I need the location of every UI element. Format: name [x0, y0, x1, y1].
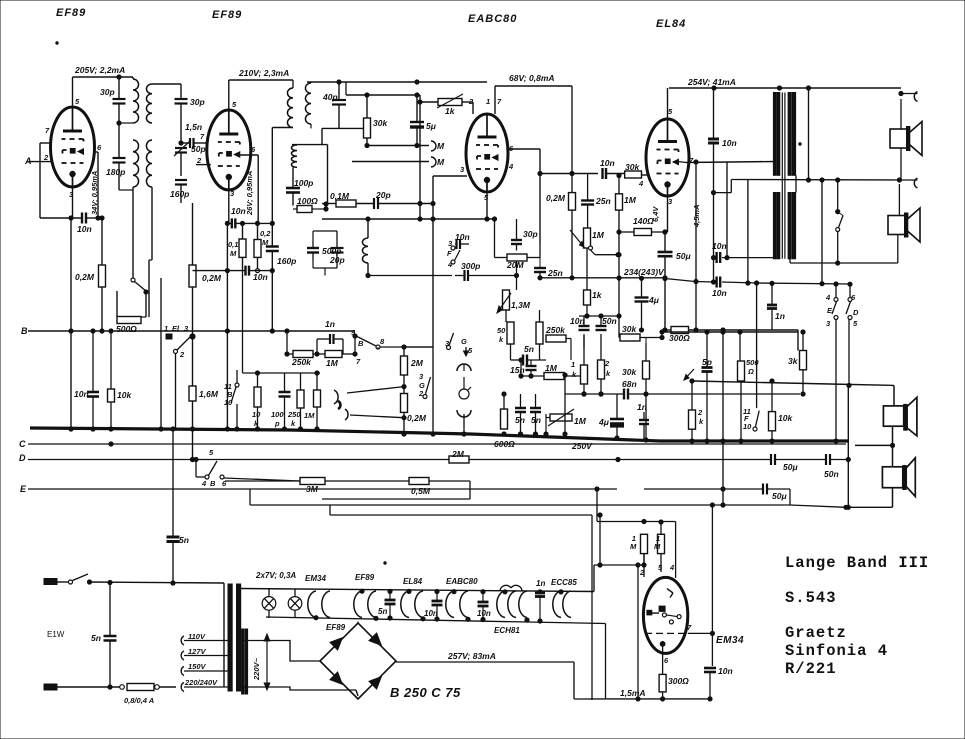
svg-text:E1W: E1W: [47, 630, 65, 639]
svg-text:10n: 10n: [722, 138, 737, 148]
svg-text:0,5M: 0,5M: [411, 486, 431, 496]
svg-text:ECH81: ECH81: [494, 626, 520, 635]
svg-text:5n: 5n: [515, 415, 525, 425]
svg-text:50: 50: [497, 326, 506, 335]
svg-text:234(243)V: 234(243)V: [623, 267, 665, 277]
svg-text:500Ω: 500Ω: [116, 324, 137, 334]
svg-text:1M: 1M: [624, 195, 637, 205]
svg-text:2: 2: [604, 359, 610, 368]
svg-text:50n: 50n: [824, 469, 839, 479]
svg-text:5n: 5n: [179, 535, 189, 545]
svg-text:30p: 30p: [100, 87, 115, 97]
svg-text:4: 4: [508, 162, 514, 171]
svg-text:6,4V: 6,4V: [651, 206, 660, 222]
svg-text:0,1: 0,1: [228, 240, 238, 249]
svg-text:5n: 5n: [524, 344, 534, 354]
svg-text:10n: 10n: [455, 232, 470, 242]
svg-text:Graetz: Graetz: [785, 624, 847, 642]
svg-text:10n: 10n: [231, 206, 246, 216]
svg-text:ECC85: ECC85: [551, 578, 577, 587]
svg-text:Sinfonia 4: Sinfonia 4: [785, 642, 888, 660]
svg-text:250: 250: [287, 410, 301, 419]
svg-text:S.543: S.543: [785, 589, 837, 607]
svg-text:1n: 1n: [536, 579, 545, 588]
svg-text:2M: 2M: [451, 449, 465, 459]
svg-text:4: 4: [825, 293, 831, 302]
svg-text:F: F: [447, 249, 452, 258]
svg-text:30k: 30k: [622, 324, 637, 334]
svg-text:3k: 3k: [788, 356, 799, 366]
svg-text:10n: 10n: [600, 158, 615, 168]
svg-text:1M: 1M: [545, 363, 558, 373]
svg-text:EABC80: EABC80: [446, 577, 478, 586]
svg-text:2: 2: [697, 408, 703, 417]
svg-text:1M: 1M: [326, 358, 339, 368]
svg-text:10k: 10k: [117, 390, 132, 400]
svg-text:30k: 30k: [622, 367, 637, 377]
svg-text:EL84: EL84: [403, 577, 423, 586]
svg-text:30p: 30p: [523, 229, 538, 239]
svg-text:1,5n: 1,5n: [185, 122, 202, 132]
svg-text:4: 4: [201, 479, 207, 488]
svg-text:10: 10: [252, 410, 261, 419]
svg-text:1n: 1n: [775, 311, 785, 321]
svg-text:10n: 10n: [253, 272, 268, 282]
svg-text:5n: 5n: [531, 415, 541, 425]
svg-text:p: p: [274, 419, 280, 428]
svg-text:50p: 50p: [191, 144, 206, 154]
svg-text:68n: 68n: [622, 379, 637, 389]
svg-text:10n: 10n: [424, 609, 438, 618]
svg-text:220/240V: 220/240V: [184, 678, 218, 687]
svg-text:M: M: [437, 141, 445, 151]
svg-text:0,2: 0,2: [260, 229, 271, 238]
svg-text:1k: 1k: [592, 290, 603, 300]
svg-text:300p: 300p: [461, 261, 480, 271]
svg-text:20p: 20p: [375, 190, 391, 200]
svg-text:30p: 30p: [190, 97, 205, 107]
svg-text:1k: 1k: [445, 106, 456, 116]
svg-text:10n: 10n: [712, 288, 727, 298]
svg-text:0,8/0,4 A: 0,8/0,4 A: [124, 696, 154, 705]
svg-text:250V: 250V: [571, 441, 593, 451]
svg-text:26V; 0,95mA: 26V; 0,95mA: [245, 171, 254, 216]
svg-text:EABC80: EABC80: [468, 13, 517, 25]
svg-text:1,6M: 1,6M: [199, 389, 219, 399]
svg-text:10: 10: [743, 422, 752, 431]
svg-text:4μ: 4μ: [598, 417, 610, 427]
svg-text:0,2M: 0,2M: [407, 413, 427, 423]
svg-text:EF89: EF89: [326, 623, 346, 632]
svg-text:1M: 1M: [574, 416, 587, 426]
svg-text:1M: 1M: [304, 411, 315, 420]
svg-text:34V; 0,95mA: 34V; 0,95mA: [90, 171, 99, 215]
svg-text:M: M: [630, 542, 637, 551]
svg-text:220V~: 220V~: [252, 657, 261, 681]
svg-text:205V; 2,2mA: 205V; 2,2mA: [74, 65, 125, 75]
svg-text:0,1M: 0,1M: [330, 191, 350, 201]
svg-text:10k: 10k: [778, 413, 793, 423]
svg-text:EL84: EL84: [656, 18, 686, 30]
svg-text:10n: 10n: [718, 666, 733, 676]
svg-text:2: 2: [179, 350, 185, 359]
svg-text:1n: 1n: [325, 319, 335, 329]
svg-text:4: 4: [669, 563, 675, 572]
svg-text:5μ: 5μ: [426, 121, 437, 131]
svg-text:110V: 110V: [188, 632, 206, 641]
svg-text:G: G: [461, 337, 467, 346]
svg-text:10n: 10n: [477, 609, 491, 618]
svg-text:300Ω: 300Ω: [668, 676, 689, 686]
svg-text:254V; 41mA: 254V; 41mA: [687, 77, 736, 87]
svg-text:1: 1: [486, 97, 490, 106]
svg-text:50n: 50n: [602, 316, 617, 326]
svg-text:210V; 2,3mA: 210V; 2,3mA: [238, 68, 289, 78]
svg-text:1,5mA: 1,5mA: [620, 688, 646, 698]
svg-text:0,2M: 0,2M: [75, 272, 95, 282]
svg-text:El: El: [172, 324, 180, 333]
svg-text:B: B: [21, 326, 28, 336]
svg-text:10n: 10n: [712, 241, 727, 251]
svg-text:20p: 20p: [329, 255, 345, 265]
svg-text:D: D: [853, 308, 859, 317]
svg-text:50μ: 50μ: [772, 491, 787, 501]
svg-text:50μ: 50μ: [676, 251, 691, 261]
svg-text:250k: 250k: [545, 325, 566, 335]
svg-text:30k: 30k: [373, 118, 388, 128]
svg-text:68V; 0,8mA: 68V; 0,8mA: [509, 73, 555, 83]
svg-text:2x7V; 0,3A: 2x7V; 0,3A: [255, 571, 296, 580]
svg-text:5n: 5n: [378, 607, 387, 616]
svg-text:1: 1: [164, 324, 168, 333]
svg-text:EF89: EF89: [355, 573, 375, 582]
svg-text:EM34: EM34: [305, 574, 326, 583]
svg-text:1M: 1M: [592, 230, 605, 240]
svg-text:E: E: [20, 484, 27, 494]
svg-text:4μ: 4μ: [648, 295, 660, 305]
svg-text:0,2M: 0,2M: [202, 273, 222, 283]
svg-text:Lange Band III: Lange Band III: [785, 554, 929, 572]
svg-text:600Ω: 600Ω: [494, 439, 515, 449]
svg-text:300Ω: 300Ω: [669, 333, 690, 343]
svg-text:10n: 10n: [74, 389, 89, 399]
svg-text:127V: 127V: [188, 647, 207, 656]
svg-text:100p: 100p: [294, 178, 313, 188]
svg-text:257V; 83mA: 257V; 83mA: [447, 651, 496, 661]
svg-text:EM34: EM34: [716, 635, 744, 646]
svg-text:2: 2: [196, 156, 202, 165]
svg-text:M: M: [230, 249, 237, 258]
svg-text:10n: 10n: [570, 316, 585, 326]
svg-text:50μ: 50μ: [783, 462, 798, 472]
svg-text:150V: 150V: [188, 662, 207, 671]
svg-text:M: M: [654, 542, 661, 551]
svg-text:2M: 2M: [410, 358, 424, 368]
svg-text:160p: 160p: [170, 189, 189, 199]
svg-text:1: 1: [571, 360, 575, 369]
svg-text:20M: 20M: [506, 260, 524, 270]
svg-text:2: 2: [43, 153, 49, 162]
svg-text:100Ω: 100Ω: [297, 196, 318, 206]
svg-text:B: B: [210, 479, 216, 488]
svg-text:250k: 250k: [291, 357, 312, 367]
svg-text:500: 500: [746, 358, 759, 367]
svg-text:C: C: [19, 439, 26, 449]
svg-text:100: 100: [271, 410, 284, 419]
svg-text:25n: 25n: [547, 268, 563, 278]
svg-text:5n: 5n: [91, 633, 101, 643]
svg-text:D: D: [19, 453, 26, 463]
svg-text:4: 4: [638, 179, 644, 188]
svg-text:0,2M: 0,2M: [546, 193, 566, 203]
svg-text:1,3M: 1,3M: [511, 300, 531, 310]
svg-text:B 250 C 75: B 250 C 75: [390, 685, 461, 700]
svg-text:15n: 15n: [510, 365, 525, 375]
svg-text:25n: 25n: [595, 196, 611, 206]
svg-text:Ω: Ω: [747, 367, 754, 376]
svg-text:180p: 180p: [106, 167, 125, 177]
svg-text:30k: 30k: [625, 162, 640, 172]
svg-text:3M: 3M: [306, 484, 319, 494]
svg-text:EF89: EF89: [212, 9, 242, 21]
svg-text:10n: 10n: [77, 224, 92, 234]
svg-text:160p: 160p: [277, 256, 296, 266]
svg-text:M: M: [437, 157, 445, 167]
svg-text:R/221: R/221: [785, 660, 837, 678]
svg-text:B: B: [358, 339, 364, 348]
svg-text:EF89: EF89: [56, 7, 86, 19]
svg-text:2: 2: [468, 97, 474, 106]
